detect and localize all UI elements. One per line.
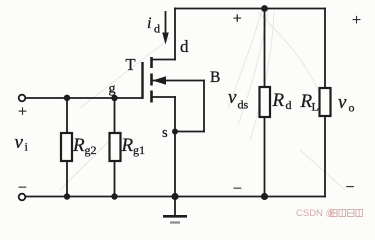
resistor Rg1 xyxy=(110,133,121,161)
svg-text:v: v xyxy=(15,132,24,153)
svg-text:−: − xyxy=(233,180,242,197)
svg-text:d: d xyxy=(180,37,189,56)
body arrow xyxy=(153,76,167,84)
wire Rd bottom xyxy=(264,117,266,197)
current arrow id xyxy=(162,11,169,45)
svg-text:CSDN @: CSDN @ xyxy=(296,208,335,219)
svg-text:+: + xyxy=(352,12,361,29)
svg-text:s: s xyxy=(162,125,168,141)
wire drain vertical xyxy=(174,9,176,60)
channel dash body xyxy=(150,74,153,86)
svg-text:+: + xyxy=(233,10,242,27)
svg-text:R: R xyxy=(272,90,285,111)
wire Rg1 bottom xyxy=(114,161,116,197)
gate bar xyxy=(141,62,143,99)
wire top rail d to RL xyxy=(175,8,325,10)
svg-text:v: v xyxy=(228,87,237,108)
svg-text:g: g xyxy=(109,82,116,97)
svg-text:g1: g1 xyxy=(133,143,145,157)
wire Rd top xyxy=(264,9,266,88)
wire body horizontal xyxy=(153,80,204,82)
svg-text:R: R xyxy=(72,135,85,156)
wire RL top xyxy=(324,9,326,89)
channel dash drain xyxy=(150,57,153,68)
wire drain stub xyxy=(152,59,175,61)
wire body return to source xyxy=(175,131,204,133)
svg-text:v: v xyxy=(338,92,347,113)
wire Rg1 top xyxy=(114,98,116,133)
svg-text:d: d xyxy=(286,98,292,112)
faint scan artifact curves xyxy=(60,10,345,190)
watermark chinese glyph blocks xyxy=(331,210,363,217)
svg-text:R: R xyxy=(121,135,134,156)
wire gate lead xyxy=(22,97,143,99)
svg-text:i: i xyxy=(147,15,151,32)
wire Rg2 top xyxy=(66,98,68,133)
terminal input + xyxy=(19,95,26,102)
svg-text:g2: g2 xyxy=(85,143,97,157)
wire RL bottom xyxy=(324,116,326,197)
svg-text:T: T xyxy=(126,55,136,74)
svg-text:B: B xyxy=(210,69,220,86)
wire bottom rail xyxy=(22,196,325,198)
svg-text:d: d xyxy=(154,22,160,36)
wire Rg2 bottom xyxy=(66,161,68,197)
channel dash source xyxy=(150,91,153,103)
resistor Rd xyxy=(260,87,271,117)
watermark CSDN xyxy=(296,208,335,219)
svg-text:−: − xyxy=(345,179,354,196)
transistor T (MOSFET) xyxy=(143,57,167,103)
wire source stub xyxy=(152,96,175,98)
node junction dots xyxy=(111,95,117,101)
svg-text:−: − xyxy=(18,179,27,196)
svg-text:o: o xyxy=(349,101,355,115)
svg-text:ds: ds xyxy=(238,98,249,112)
svg-text:L: L xyxy=(312,100,319,114)
svg-text:+: + xyxy=(18,103,27,120)
terminal input - xyxy=(19,194,26,201)
resistor RL xyxy=(320,88,331,116)
resistor Rg2 xyxy=(61,133,72,161)
wire body vertical xyxy=(203,81,205,132)
wire source vertical xyxy=(174,97,176,197)
ground xyxy=(163,197,187,223)
